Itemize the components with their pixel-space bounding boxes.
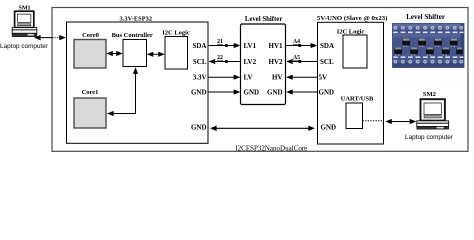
svg-text:21: 21 (217, 39, 223, 45)
svg-text:Laptop computer: Laptop computer (0, 43, 49, 50)
svg-text:SDA: SDA (320, 42, 334, 50)
wire Bus Controller - I2C Logic (double arrow) (147, 52, 165, 57)
wire 5V to HV (288, 76, 318, 78)
svg-text:GND: GND (319, 88, 335, 96)
tiny leg pads (395, 46, 455, 56)
transistors row 2 (394, 47, 462, 54)
wire SDA to LV1 (208, 45, 239, 47)
wire Core1 - Bus Controller (elbow) (107, 67, 138, 116)
box 3.3V-ESP32 (67, 22, 209, 143)
svg-text:Laptop computer: Laptop computer (405, 134, 454, 141)
junction dot A4 (298, 44, 301, 47)
wire 3.3V to LV (208, 76, 239, 78)
svg-text:LV2: LV2 (244, 58, 257, 66)
laptop computer icon SM1 (12, 11, 37, 36)
svg-text:SCL: SCL (320, 58, 334, 66)
svg-text:UART/USB: UART/USB (341, 95, 374, 102)
box 5V-UNO (318, 22, 384, 144)
wire SCL to LV2 (210, 61, 241, 63)
svg-text:I2CESP32NanoDualCore: I2CESP32NanoDualCore (235, 144, 307, 152)
svg-text:A5: A5 (293, 55, 300, 61)
transistors row 1 (402, 39, 457, 46)
wire SCL (UNO) to HV2 (288, 61, 318, 63)
svg-text:GND: GND (267, 89, 283, 97)
svg-text:22: 22 (217, 55, 223, 61)
svg-text:SCL: SCL (193, 58, 207, 66)
junction dot A5 (298, 60, 301, 63)
pin pads bottom row (394, 60, 464, 64)
junction dot 21 (225, 44, 228, 47)
svg-text:Level Shifter: Level Shifter (245, 16, 283, 23)
svg-text:GND: GND (244, 89, 260, 97)
wire SM1 to ESP32 (double arrow, dashed near box) (34, 35, 66, 40)
wire UNO to SM2 (double arrow) (385, 119, 416, 124)
wire GND (UNO) to GND (LS right) (288, 91, 318, 93)
svg-text:GND: GND (191, 88, 207, 96)
svg-text:Level Shifter: Level Shifter (406, 13, 445, 21)
svg-text:HV2: HV2 (269, 58, 284, 66)
svg-text:SDA: SDA (192, 42, 206, 50)
silkscreen labels top (393, 32, 463, 33)
junction dot 22 (225, 60, 228, 63)
svg-text:SM2: SM2 (423, 91, 436, 98)
wire HV1 to SDA (UNO) (286, 45, 316, 47)
svg-text:HV: HV (272, 74, 283, 82)
svg-text:HV1: HV1 (269, 42, 284, 50)
svg-text:5V: 5V (319, 74, 328, 82)
svg-text:Core0: Core0 (82, 32, 99, 39)
svg-text:GND: GND (321, 123, 337, 131)
svg-text:3.3V-ESP32: 3.3V-ESP32 (120, 17, 153, 23)
svg-text:Bus Controller: Bus Controller (112, 32, 153, 39)
laptop computer icon SM2 (417, 99, 449, 129)
svg-text:Core1: Core1 (82, 89, 99, 96)
wire GND to GND (left gap) (208, 91, 239, 93)
svg-text:LV1: LV1 (244, 42, 257, 50)
svg-text:3.3V: 3.3V (193, 74, 207, 82)
level shifter PCB photo (393, 24, 465, 68)
wire UART/USB dashed to UNO edge (363, 120, 384, 122)
svg-text:5V-UNO (Slave @ 0x23): 5V-UNO (Slave @ 0x23) (317, 15, 388, 22)
outer frame (52, 8, 468, 152)
box Level Shifter (middle) (241, 24, 286, 105)
svg-text:I2C Logic: I2C Logic (337, 29, 365, 36)
svg-text:GND: GND (191, 123, 207, 131)
wire Core0 - Bus Controller (double arrow) (106, 51, 123, 56)
wire GND-GND bottom (double arrow) (210, 126, 315, 131)
pin pads top row (394, 26, 464, 30)
svg-text:LV: LV (244, 74, 253, 82)
svg-text:I2C Logic: I2C Logic (162, 30, 190, 37)
silkscreen labels bottom (393, 56, 463, 58)
